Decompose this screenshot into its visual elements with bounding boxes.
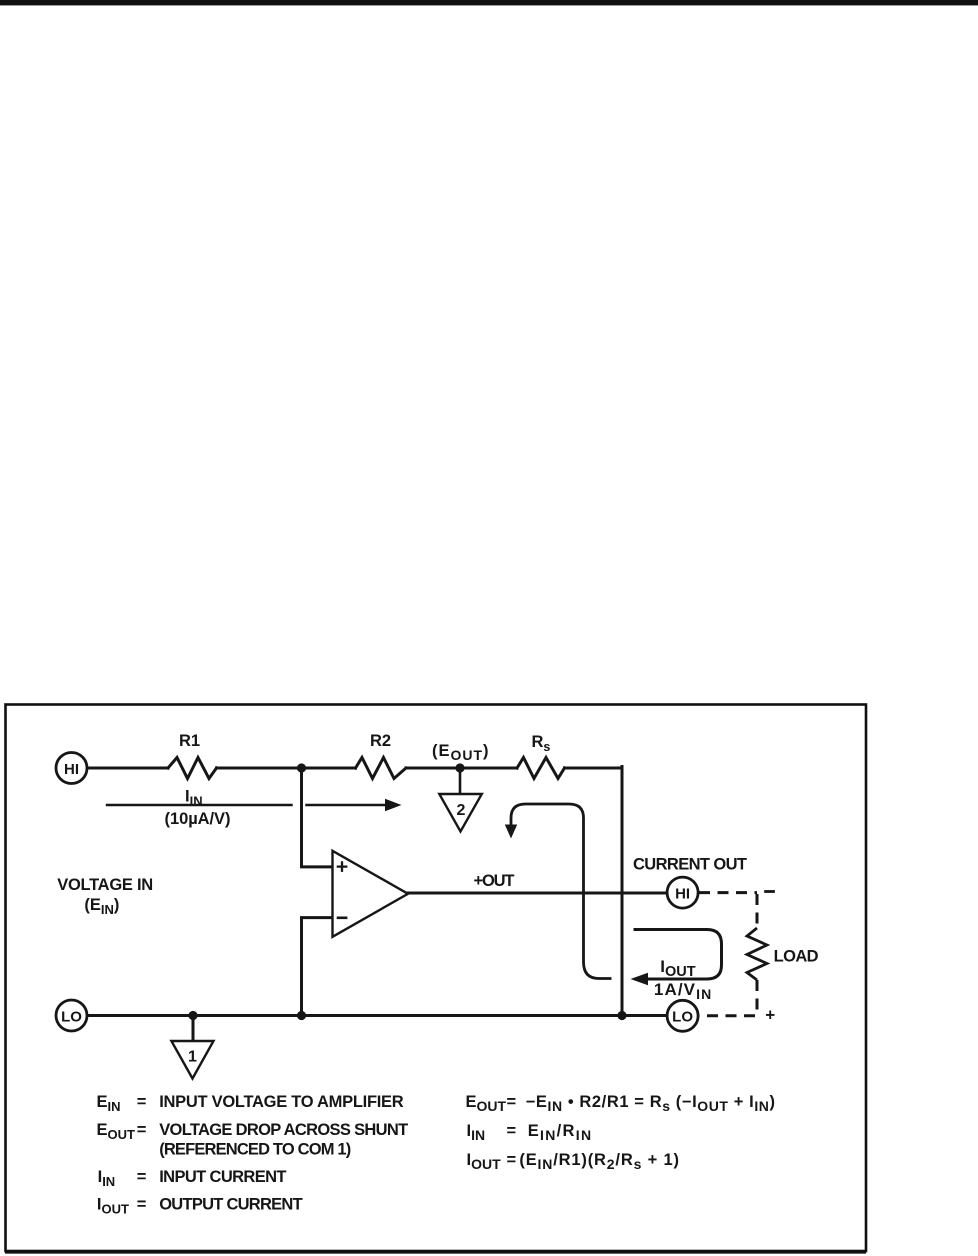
svg-text:IOUT: IOUT (97, 1196, 129, 1217)
svg-text:=: = (137, 1121, 147, 1139)
svg-text:=: = (507, 1151, 517, 1169)
svg-text:(EIN/R1)(R2/Rs + 1): (EIN/R1)(R2/Rs + 1) (519, 1151, 679, 1172)
svg-text:=: = (507, 1093, 517, 1111)
svg-text:EIN/RIN: EIN/RIN (528, 1122, 591, 1143)
svg-text:IIN: IIN (98, 1168, 116, 1189)
svg-text:+OUT: +OUT (474, 872, 515, 890)
svg-text:1A/VIN: 1A/VIN (654, 980, 711, 1002)
svg-text:(REFERENCED TO COM 1): (REFERENCED TO COM 1) (159, 1141, 351, 1159)
svg-text:OUTPUT CURRENT: OUTPUT CURRENT (159, 1196, 303, 1214)
svg-text:LO: LO (672, 1009, 693, 1026)
svg-text:R1: R1 (179, 732, 200, 750)
svg-text:HI: HI (675, 885, 690, 902)
svg-text:=: = (137, 1168, 147, 1186)
svg-text:IIN: IIN (467, 1122, 486, 1143)
svg-text:(10µA/V): (10µA/V) (165, 810, 231, 828)
svg-text:−EIN • R2/R1 = Rs (−IOUT + IIN: −EIN • R2/R1 = Rs (−IOUT + IIN) (526, 1093, 775, 1114)
svg-text:=: = (137, 1196, 147, 1214)
svg-text:INPUT VOLTAGE TO AMPLIFIER: INPUT VOLTAGE TO AMPLIFIER (159, 1093, 404, 1111)
svg-text:=: = (507, 1122, 517, 1140)
svg-text:EOUT: EOUT (466, 1093, 507, 1114)
svg-text:2: 2 (456, 802, 465, 819)
svg-text:+: + (765, 1006, 775, 1025)
svg-text:LO: LO (61, 1009, 82, 1026)
svg-text:CURRENT OUT: CURRENT OUT (633, 855, 747, 873)
svg-text:EIN: EIN (97, 1093, 121, 1114)
svg-text:1: 1 (188, 1049, 197, 1066)
svg-text:(EOUT): (EOUT) (432, 742, 489, 763)
svg-text:IIN: IIN (185, 788, 203, 809)
svg-text:Rs: Rs (532, 733, 551, 754)
svg-text:IOUT: IOUT (660, 957, 695, 980)
svg-text:VOLTAGE IN: VOLTAGE IN (57, 876, 153, 894)
svg-text:INPUT CURRENT: INPUT CURRENT (159, 1168, 286, 1186)
svg-text:IOUT: IOUT (467, 1151, 502, 1172)
svg-text:=: = (137, 1093, 147, 1111)
svg-text:LOAD: LOAD (774, 947, 819, 965)
svg-text:HI: HI (64, 761, 79, 778)
svg-text:EOUT: EOUT (97, 1121, 136, 1142)
svg-text:R2: R2 (370, 732, 391, 750)
svg-text:VOLTAGE DROP ACROSS SHUNT: VOLTAGE DROP ACROSS SHUNT (159, 1121, 408, 1139)
svg-text:(EIN): (EIN) (84, 896, 119, 917)
